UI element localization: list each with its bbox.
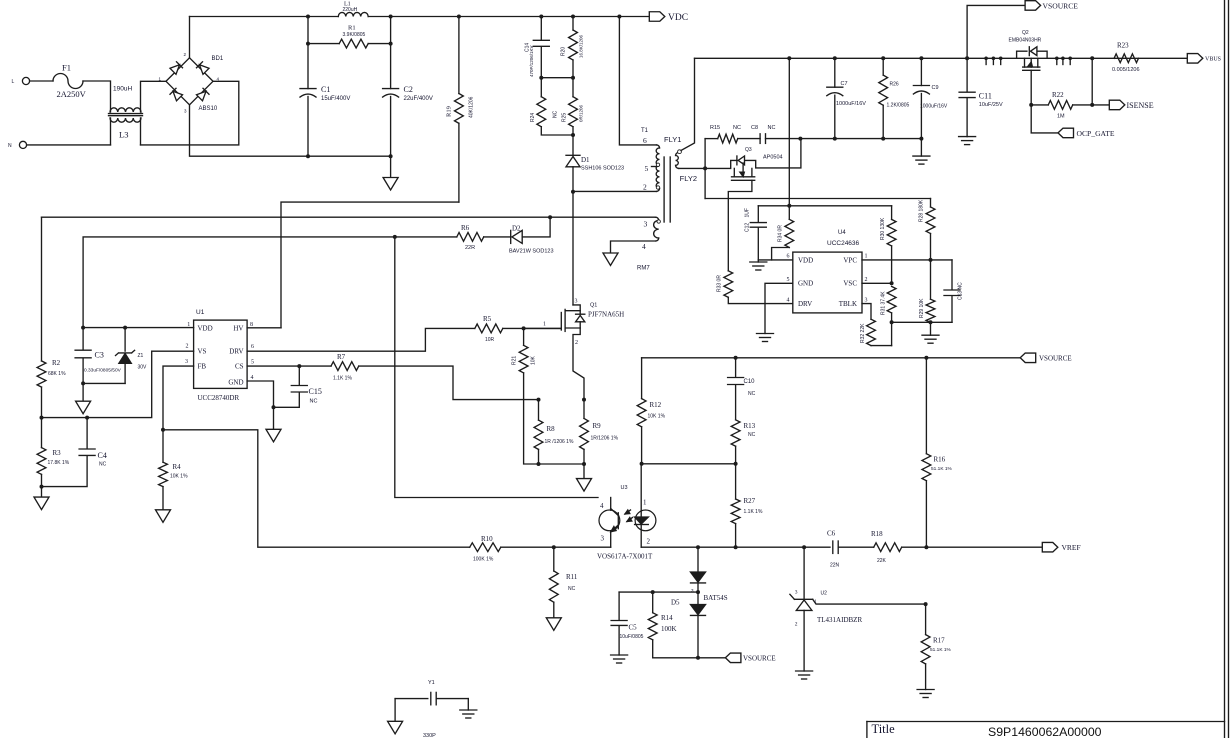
svg-text:1M: 1M — [1057, 114, 1065, 120]
svg-text:R10: R10 — [481, 535, 493, 543]
svg-text:220uH: 220uH — [343, 7, 358, 13]
wire — [758, 205, 891, 207]
resistor R23 — [1114, 54, 1138, 63]
svg-text:R26: R26 — [890, 82, 899, 88]
node — [306, 154, 310, 158]
capacitor C13 — [951, 260, 953, 290]
svg-text:NC: NC — [553, 110, 559, 118]
svg-text:0.005/1206: 0.005/1206 — [1112, 67, 1140, 73]
ground — [959, 136, 976, 138]
transistor Q1 — [572, 192, 574, 305]
svg-text:VPC: VPC — [843, 256, 857, 264]
wire — [738, 138, 760, 140]
svg-text:6: 6 — [643, 136, 647, 145]
svg-text:D2: D2 — [512, 225, 521, 233]
svg-text:330P: 330P — [423, 733, 436, 738]
capacitor C8 — [759, 134, 761, 144]
capacitor C11 — [966, 58, 968, 91]
svg-text:U1: U1 — [196, 309, 205, 316]
wire VDC rail — [190, 16, 339, 18]
ground — [467, 699, 469, 710]
ground — [930, 322, 932, 335]
svg-text:R15: R15 — [710, 125, 720, 131]
wire — [642, 463, 736, 465]
svg-text:10K 1%: 10K 1% — [648, 414, 666, 420]
wire pin6 — [619, 17, 656, 145]
wire HV pin8 — [247, 327, 281, 329]
wire VSC pin2 — [862, 282, 892, 284]
svg-text:R23: R23 — [1117, 42, 1129, 50]
wire Q2 gate — [1031, 70, 1058, 133]
svg-text:22K: 22K — [877, 558, 887, 564]
ground — [390, 156, 392, 177]
svg-text:16.8K/1206: 16.8K/1206 — [579, 34, 584, 58]
svg-text:10K 1%: 10K 1% — [170, 474, 188, 480]
svg-text:R24: R24 — [530, 113, 536, 122]
svg-text:OCP_GATE: OCP_GATE — [1077, 129, 1115, 138]
svg-text:R19: R19 — [446, 106, 453, 117]
svg-text:R13: R13 — [744, 422, 756, 430]
node — [696, 590, 700, 594]
svg-text:D5: D5 — [671, 599, 680, 607]
svg-text:R28 180K: R28 180K — [919, 199, 925, 222]
wire VDD pin6 — [758, 259, 793, 261]
wire — [1091, 58, 1093, 105]
terminal VDC — [649, 12, 665, 22]
svg-text:C2: C2 — [404, 85, 413, 94]
svg-text:4: 4 — [251, 375, 254, 381]
wire — [141, 81, 239, 145]
ground — [796, 670, 813, 672]
svg-text:3: 3 — [185, 359, 188, 365]
resistor R20 — [572, 17, 574, 31]
capacitor C1 — [300, 88, 316, 90]
svg-text:R11: R11 — [566, 573, 578, 581]
node — [1029, 103, 1033, 107]
svg-text:Q2: Q2 — [1022, 30, 1029, 36]
svg-text:4: 4 — [600, 502, 604, 510]
svg-text:EMB04N03HR: EMB04N03HR — [1009, 38, 1042, 44]
svg-text:ABS10: ABS10 — [199, 106, 218, 112]
svg-text:R17: R17 — [933, 637, 945, 645]
wire FLY2 to R28 — [705, 198, 930, 200]
svg-text:3: 3 — [644, 220, 648, 229]
zener Z1 — [124, 328, 126, 352]
node — [734, 462, 738, 466]
node — [571, 133, 575, 137]
node — [539, 76, 543, 80]
svg-text:C5: C5 — [629, 624, 638, 632]
svg-text:R3: R3 — [53, 449, 62, 457]
svg-text:U2: U2 — [821, 591, 828, 597]
svg-text:Z1: Z1 — [138, 353, 144, 359]
wire VDD to R6 — [83, 237, 457, 328]
capacitor C3 — [82, 328, 84, 350]
wire — [539, 463, 585, 465]
node — [297, 364, 301, 368]
svg-text:R9: R9 — [593, 422, 602, 430]
node — [1090, 103, 1094, 107]
wire bridge bottom — [190, 105, 391, 156]
svg-text:R21: R21 — [512, 356, 518, 365]
wire FLY2 to Q3 — [704, 139, 706, 199]
svg-text:VSOURCE: VSOURCE — [743, 655, 776, 663]
wire VDD to opto — [395, 237, 598, 498]
svg-text:TL431AIDBZR: TL431AIDBZR — [817, 616, 862, 624]
node — [81, 326, 85, 330]
resistor R10 — [470, 543, 501, 552]
resistor R1 — [308, 43, 339, 45]
svg-text:R2: R2 — [52, 359, 61, 367]
ground — [603, 253, 618, 266]
svg-text:F1: F1 — [62, 63, 71, 73]
transistor Q3 — [705, 160, 737, 168]
svg-text:VDC: VDC — [668, 13, 688, 23]
svg-text:C8: C8 — [751, 125, 758, 131]
wire FLY1 — [681, 58, 695, 150]
node — [787, 204, 791, 208]
svg-text:22uF/400V: 22uF/400V — [404, 96, 433, 102]
svg-text:N: N — [8, 143, 12, 149]
wire pin2 — [573, 190, 657, 192]
terminal ISENSE — [1092, 104, 1109, 106]
wire — [27, 144, 111, 146]
title block — [867, 721, 1225, 723]
svg-text:190uH: 190uH — [113, 86, 132, 93]
svg-text:6: 6 — [787, 254, 790, 260]
svg-text:1UF: 1UF — [745, 208, 751, 217]
resistor R2 — [41, 217, 43, 361]
svg-text:10K: 10K — [531, 355, 537, 365]
wire — [503, 327, 562, 329]
svg-text:UCC24636: UCC24636 — [827, 240, 860, 247]
svg-text:FLY1: FLY1 — [664, 135, 681, 144]
svg-text:R12: R12 — [650, 401, 662, 409]
svg-text:2: 2 — [795, 622, 798, 628]
svg-text:T1: T1 — [641, 128, 649, 134]
node — [929, 320, 933, 324]
resistor R19 — [458, 17, 460, 94]
wire CS pin5 — [247, 365, 331, 367]
svg-text:R1: R1 — [348, 25, 356, 32]
svg-text:L: L — [12, 79, 15, 85]
svg-text:DRV: DRV — [798, 300, 812, 308]
capacitor C7 — [834, 58, 836, 87]
svg-text:100K: 100K — [661, 625, 677, 633]
diode D1 — [572, 135, 574, 155]
svg-text:5: 5 — [787, 277, 790, 283]
wire — [140, 118, 142, 145]
capacitor Y1 — [395, 698, 428, 700]
svg-text:2: 2 — [865, 277, 868, 283]
svg-text:6: 6 — [251, 344, 254, 350]
svg-text:U4: U4 — [838, 230, 846, 236]
node — [651, 590, 655, 594]
svg-text:R30 130K: R30 130K — [880, 217, 886, 240]
wire bridge to rail — [189, 17, 191, 58]
svg-text:C6: C6 — [827, 530, 836, 538]
svg-text:R14: R14 — [661, 614, 673, 622]
wire VDD line — [83, 327, 194, 329]
node — [798, 137, 802, 141]
wire — [501, 546, 611, 548]
wire GND pin5 — [765, 283, 793, 333]
T1 primary winding — [657, 145, 660, 148]
svg-text:FLY2: FLY2 — [680, 174, 697, 183]
svg-text:22R: 22R — [465, 245, 475, 251]
wire FLY2 — [679, 167, 706, 169]
wire opto emitter — [610, 532, 612, 548]
svg-text:4: 4 — [642, 242, 646, 251]
svg-text:NC: NC — [733, 125, 741, 131]
node — [161, 428, 165, 432]
svg-text:1: 1 — [643, 499, 647, 507]
node — [924, 602, 928, 606]
node — [306, 42, 310, 46]
wire — [892, 321, 952, 323]
svg-text:R22: R22 — [1052, 91, 1064, 99]
svg-text:2: 2 — [575, 340, 578, 346]
svg-text:R16: R16 — [934, 456, 946, 464]
svg-text:VBUS: VBUS — [1205, 57, 1221, 63]
node — [640, 462, 644, 466]
svg-text:51.1K 1%: 51.1K 1% — [930, 647, 952, 653]
svg-text:BD1: BD1 — [212, 56, 224, 62]
resistor R28 — [930, 199, 932, 208]
resistor R6 — [457, 233, 484, 242]
resistor R32 (TBLK) — [862, 304, 871, 320]
wire DRV pin6 — [247, 328, 475, 351]
svg-text:51.1K 1%: 51.1K 1% — [931, 466, 953, 472]
svg-text:D1: D1 — [581, 156, 590, 164]
svg-text:FB: FB — [198, 363, 207, 371]
resistor R18 — [874, 543, 902, 552]
svg-text:5: 5 — [645, 164, 649, 173]
svg-text:1.1K 1%: 1.1K 1% — [333, 376, 352, 382]
capacitor C14 — [540, 17, 542, 40]
capacitor C5 — [618, 592, 620, 620]
resistor R25 — [572, 78, 574, 97]
wire — [83, 81, 111, 112]
resistor R7 — [331, 362, 359, 371]
wire — [110, 118, 112, 145]
svg-text:R27: R27 — [744, 497, 756, 505]
T1 pin 5 tap — [652, 166, 658, 168]
svg-text:VSOURCE: VSOURCE — [1039, 355, 1072, 363]
svg-text:2: 2 — [643, 183, 647, 192]
svg-text:VS: VS — [198, 348, 207, 356]
node — [272, 405, 276, 409]
svg-text:3: 3 — [601, 535, 605, 543]
svg-text:Q3: Q3 — [745, 147, 752, 153]
svg-text:CS: CS — [235, 363, 244, 371]
wire opto collector — [610, 498, 612, 511]
node — [552, 545, 556, 549]
terminal VSOURCE top — [967, 5, 1025, 58]
svg-text:C12: C12 — [745, 223, 751, 232]
svg-text:C13 NC: C13 NC — [958, 282, 964, 300]
resistor R21 — [523, 328, 525, 345]
wire GND pin4 — [247, 381, 273, 407]
svg-text:C15: C15 — [309, 387, 322, 396]
svg-text:3: 3 — [795, 590, 798, 596]
shunt regulator U2 TL431 — [803, 547, 805, 599]
svg-text:Title: Title — [872, 722, 896, 736]
wire — [522, 217, 550, 237]
svg-text:Y1: Y1 — [428, 680, 435, 686]
ground — [82, 383, 84, 401]
svg-text:3: 3 — [575, 299, 578, 305]
terminal L — [22, 77, 29, 84]
svg-text:1.1K 1%: 1.1K 1% — [744, 509, 763, 515]
T1 aux winding — [656, 217, 659, 220]
resistor R33 — [727, 270, 729, 272]
svg-text:1000uF/16V: 1000uF/16V — [920, 104, 948, 110]
svg-text:R34 0R: R34 0R — [778, 225, 784, 242]
svg-text:TBLK: TBLK — [839, 300, 857, 308]
wire VREF rail — [641, 546, 830, 548]
wire — [838, 546, 873, 548]
svg-text:0R/1206: 0R/1206 — [579, 104, 584, 122]
terminal VREF — [1042, 542, 1058, 552]
svg-text:4: 4 — [787, 297, 790, 303]
svg-text:15uF/400V: 15uF/400V — [321, 96, 350, 102]
svg-text:RM7: RM7 — [637, 266, 650, 272]
resistor R11 — [553, 547, 555, 571]
opto LED — [640, 464, 642, 517]
resistor R15 — [718, 134, 738, 143]
svg-text:5: 5 — [251, 360, 254, 366]
svg-text:C3: C3 — [95, 351, 104, 360]
svg-text:1R /1206 1%: 1R /1206 1% — [545, 439, 574, 445]
svg-text:R29 10K: R29 10K — [919, 298, 925, 318]
svg-text:8: 8 — [250, 322, 253, 328]
capacitor C10 — [735, 358, 737, 377]
capacitor C15 — [298, 366, 300, 385]
svg-text:R33 0R: R33 0R — [717, 275, 723, 292]
wire TL431 ref — [813, 599, 926, 604]
svg-text:1: 1 — [814, 599, 817, 605]
wire — [390, 17, 392, 89]
svg-text:1000uF/16V: 1000uF/16V — [836, 101, 866, 107]
node — [522, 326, 526, 330]
ground — [41, 487, 43, 498]
resistor R12 — [641, 358, 643, 399]
svg-text:10R: 10R — [485, 337, 495, 343]
svg-text:VSC: VSC — [843, 280, 857, 288]
svg-text:40K/1206: 40K/1206 — [469, 96, 475, 118]
resistor R31 — [887, 286, 896, 313]
svg-text:2A250V: 2A250V — [57, 89, 87, 99]
node — [787, 56, 791, 60]
resistor R27 — [735, 464, 737, 499]
wire FB to opto — [163, 430, 470, 547]
wire VOUT sense drop — [788, 58, 790, 206]
capacitor C2 — [383, 88, 399, 90]
opto arrows — [625, 510, 631, 514]
node — [40, 485, 44, 489]
wire VOUT rail — [695, 57, 1188, 59]
ground — [611, 654, 628, 656]
terminal VBUS — [1187, 54, 1203, 64]
svg-text:R32 22K: R32 22K — [860, 323, 866, 343]
node — [306, 15, 310, 19]
node — [571, 190, 575, 194]
svg-text:0.33uF/0805/50V: 0.33uF/0805/50V — [84, 368, 122, 374]
svg-text:2: 2 — [186, 344, 189, 350]
svg-text:NC: NC — [310, 399, 318, 405]
resistor R4 — [162, 430, 164, 462]
svg-text:100K 1%: 100K 1% — [473, 557, 494, 563]
svg-text:PJF7NA65H: PJF7NA65H — [588, 311, 624, 319]
border frame right — [1224, 0, 1226, 738]
T1 core — [663, 157, 665, 222]
node — [537, 398, 541, 402]
ground — [750, 261, 767, 263]
svg-text:R31 37.4K: R31 37.4K — [881, 291, 887, 315]
resistor R22 — [1031, 104, 1048, 106]
svg-text:R6: R6 — [461, 224, 470, 232]
svg-text:HV: HV — [233, 325, 243, 333]
svg-text:C11: C11 — [979, 92, 992, 101]
svg-text:NC: NC — [748, 391, 756, 397]
svg-text:U3: U3 — [621, 485, 628, 491]
common-mode choke L3 — [110, 108, 141, 112]
svg-text:SSH106 SOD123: SSH106 SOD123 — [581, 166, 624, 172]
svg-text:VDD: VDD — [198, 325, 213, 333]
svg-text:R8: R8 — [547, 425, 556, 433]
ground — [156, 510, 171, 523]
svg-text:ISENSE: ISENSE — [1127, 101, 1154, 110]
svg-text:GND: GND — [228, 379, 243, 387]
node — [924, 545, 928, 549]
svg-text:10uF/25V: 10uF/25V — [979, 102, 1003, 108]
svg-text:68K 1%: 68K 1% — [48, 371, 66, 377]
resistor R16 — [925, 358, 927, 454]
wire VSOURCE rail 2 — [642, 357, 1021, 359]
resistor R30 — [891, 206, 893, 220]
wire VPC pin1 — [862, 259, 952, 261]
resistor R9 — [583, 400, 585, 419]
svg-text:3: 3 — [865, 297, 868, 303]
svg-text:VSOURCE: VSOURCE — [1043, 2, 1079, 11]
IC U4 UCC24636 — [793, 252, 862, 313]
node — [890, 320, 894, 324]
node — [548, 215, 552, 219]
node — [81, 381, 85, 385]
resistor R3 — [41, 418, 43, 448]
wire — [30, 80, 53, 82]
wire — [766, 138, 922, 140]
svg-text:DRV: DRV — [229, 348, 243, 356]
svg-text:BAV21W SOD123: BAV21W SOD123 — [509, 249, 554, 255]
node — [696, 656, 700, 660]
svg-text:C1: C1 — [321, 85, 330, 94]
wire snubber line — [705, 138, 718, 140]
IC U1 UCC28740DR — [194, 320, 248, 388]
svg-text:C10: C10 — [744, 379, 756, 385]
wire Q3 gate — [728, 180, 752, 270]
resistor R26 — [882, 58, 884, 75]
svg-text:2: 2 — [647, 538, 651, 546]
terminal N — [19, 141, 26, 148]
svg-text:10uF/0805: 10uF/0805 — [620, 634, 644, 640]
resistor R8 — [538, 400, 540, 421]
svg-text:AP0504: AP0504 — [763, 155, 783, 161]
svg-text:S9P1460062A00000: S9P1460062A00000 — [988, 725, 1102, 738]
svg-text:3.9K/0805: 3.9K/0805 — [343, 32, 366, 38]
svg-text:R18: R18 — [871, 530, 883, 538]
